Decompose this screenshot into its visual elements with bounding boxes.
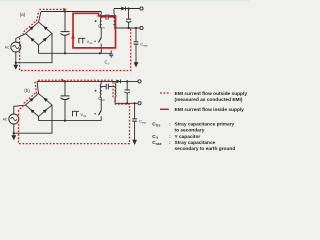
svg-text:EMI current flow outside suppl: EMI current flow outside supply [175,91,248,97]
EMI outside-supply path (red dashed) (b) [19,80,130,143]
bridge diode D1 BR2 (b) [30,98,34,102]
svg-text:Y: Y [108,62,110,66]
wire AC-bottom stem (a) [15,52,17,63]
transformer T2 secondary winding (b) [114,81,116,83]
wire AC-top to bridge left (a) [16,34,26,42]
bridge diode D2 BR1 (a) [44,26,48,30]
Vds waveform glyph (a) [79,38,86,43]
node MOSFET source (a) [99,52,101,54]
node bulk cap bottom (b) [64,120,66,122]
- rail (b) [39,120,102,122]
legend dashed sample [160,92,171,94]
AC source V1 (a) [11,42,21,52]
wire AC return to bridge right (b) [14,105,52,133]
output diode D6 (b) [116,79,120,83]
svg-text:EMI current flow inside supply: EMI current flow inside supply [175,107,245,113]
secondary + rail (a) [114,8,140,10]
svg-text:secondary to earth ground: secondary to earth ground [175,146,236,152]
bridge diode D4 BR1 (a) [43,38,47,42]
output terminal - (b) [138,102,141,105]
+ rail (b) [37,80,138,82]
EMI inside-supply loop (red solid) (a) [73,13,116,48]
output diode D5 (a) [121,7,125,11]
bridge diode D1 BR1 (a) [30,26,34,30]
svg-text:sse: sse [143,44,148,48]
earth ground arrow at Csse (a) [134,62,139,67]
svg-text:sse: sse [142,121,147,125]
earth ground arrow at Csse (b) [132,140,137,145]
EMI outside-supply path (red dashed) (a) [20,9,131,70]
stray capacitance Ctrs (a) [101,14,114,20]
node AC earth (b) [13,132,15,134]
bulk capacitor C1 (a) [64,12,66,32]
svg-text:(a): (a) [20,12,26,17]
- rail (a) [39,52,112,54]
output capacitor C2 (a) [128,9,130,20]
node AC earth (a) [15,62,17,64]
bridge diode D3 BR1 (a) [30,38,34,42]
output terminal + (a) [140,7,143,10]
svg-text:trs: trs [156,124,160,128]
bridge rectifier BR1 (a) diamond [26,22,53,45]
svg-text:Y capacitor: Y capacitor [175,134,201,140]
node bulk cap top (b) [64,80,66,82]
bridge diode D3 BR2 (b) [30,109,34,113]
switch Q1 (a) [100,28,102,38]
+ rail (a) [41,11,101,13]
wire bridge top to + rail (b) [37,81,39,93]
wire bridge bottom drop (a) [38,45,40,53]
svg-text:AC: AC [5,46,10,50]
wire AC-top to bridge left (b) [14,105,26,114]
Y capacitor CY (a) [109,50,113,58]
stray capacitance Csse (a) [135,28,137,41]
svg-text:(b): (b) [24,88,30,93]
red loop arrow up (a) [71,34,75,39]
wire bridge top to + rail (a) [39,12,42,23]
output terminal + (b) [138,80,141,83]
node Csse top (b) [134,102,136,104]
red dashed arrow right (b) [61,79,65,82]
bridge diode D4 BR2 (b) [43,109,47,113]
secondary - rail (a) [114,27,140,29]
switch Q2 (b) [100,98,102,111]
legend solid sample [160,108,169,110]
bridge diode D2 BR2 (b) [44,98,48,102]
svg-text:sse: sse [156,142,162,146]
primary phase dot (a) [95,20,97,22]
earth ground arrow at AC (b) [13,133,15,135]
stray capacitance Ctrs (b) [101,84,115,90]
svg-text:trs: trs [102,98,106,102]
wire bridge bottom drop (b) [38,117,40,121]
svg-text:trs: trs [102,26,106,30]
output capacitor C4 (b) [126,81,128,90]
wire AC return to bridge right (a) [16,34,52,63]
node bulk cap top (a) [64,10,66,12]
transformer T1 primary winding (a) [100,12,102,15]
svg-text:Stray capacitance: Stray capacitance [175,140,216,146]
node output cap top (b) [126,80,128,82]
transformer T2 primary winding (b) [100,81,102,83]
bulk capacitor C3 (b) [64,81,66,96]
primary phase dot (b) [95,90,97,92]
node Csse top (a) [135,27,137,29]
scan edge strip top [0,0,250,1]
node output cap top (a) [128,7,130,9]
secondary - rail (b) [115,102,138,104]
svg-text:to secondary: to secondary [175,127,205,133]
output terminal - (a) [140,26,143,29]
earth ground arrow at AC (a) [15,63,17,65]
red dashed arrow right (a) [63,8,67,11]
Vds waveform glyph (b) [73,111,80,116]
AC source V2 (b) [9,114,19,124]
svg-text:AC: AC [3,118,8,122]
stray capacitance Csse (b) [134,103,136,118]
svg-text:(measured as conducted EMI): (measured as conducted EMI) [175,97,243,103]
transformer T1 secondary winding (a) [113,9,115,15]
bridge rectifier BR2 (b) diamond [26,94,53,117]
node bulk cap bottom (a) [64,52,66,54]
svg-text:Stray capacitance primary: Stray capacitance primary [175,121,235,127]
wire AC-bottom stem (b) [13,124,15,133]
